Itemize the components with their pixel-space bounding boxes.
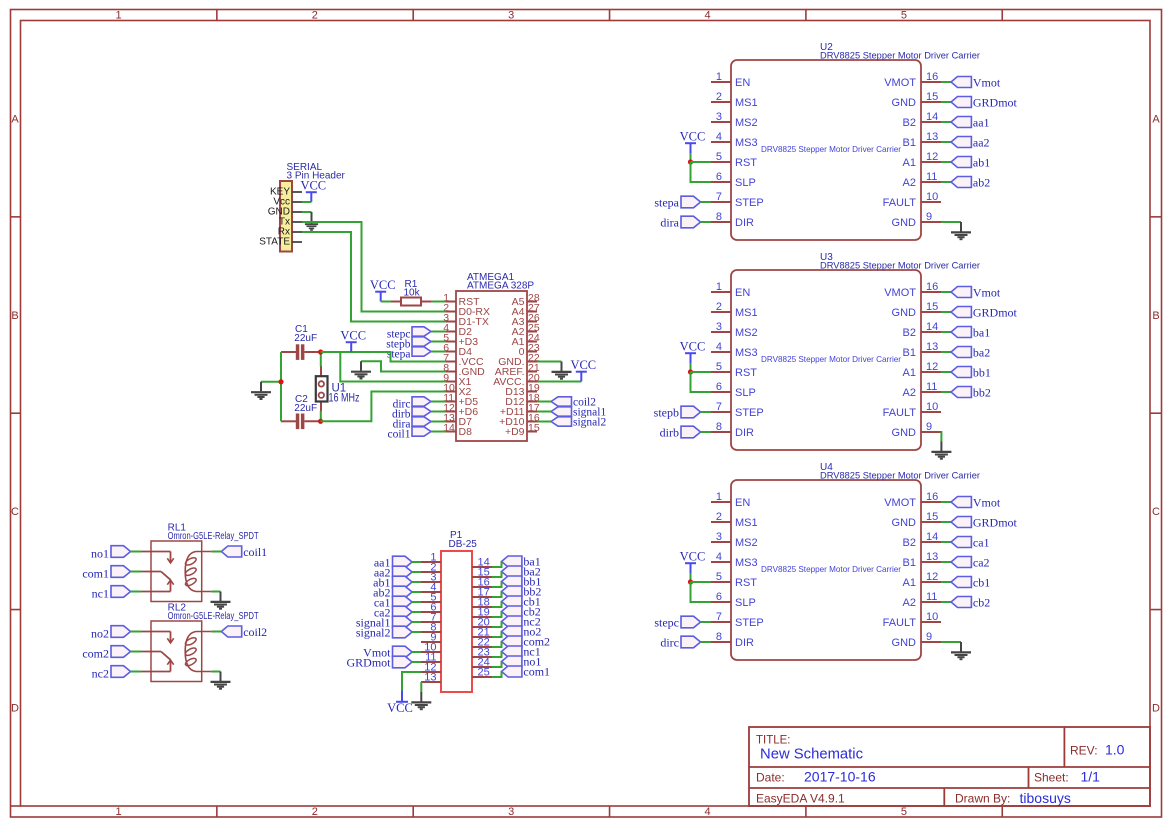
net flag ba1 — [951, 326, 990, 340]
net flag coil2 — [551, 397, 596, 409]
SERIAL pin 5 (Rx) — [278, 227, 302, 238]
svg-text:dira: dira — [660, 216, 679, 230]
svg-text:signal2: signal2 — [356, 626, 391, 640]
wire — [492, 642, 502, 648]
svg-text:4: 4 — [704, 10, 710, 22]
U4 pin 5 (RST) — [711, 571, 757, 589]
svg-text:Vmot: Vmot — [973, 286, 1001, 300]
svg-text:VCC: VCC — [300, 179, 326, 193]
svg-text:RST: RST — [735, 577, 757, 589]
wire — [492, 592, 502, 598]
junction — [318, 349, 323, 354]
svg-text:aa2: aa2 — [973, 136, 990, 150]
capacitor C2 22uF — [281, 414, 321, 430]
net flag no1 — [91, 546, 131, 561]
frame column numbers (top) — [115, 10, 907, 22]
svg-text:GND: GND — [892, 517, 917, 529]
U4 pin 13 (B1) — [903, 551, 941, 569]
P1 pin 6 — [421, 602, 441, 614]
svg-text:DIR: DIR — [735, 427, 754, 439]
wire — [412, 601, 421, 603]
ground — [411, 692, 431, 709]
wire VCC rail to ATMEGA pin 7 — [321, 352, 446, 362]
net flag signal1 — [356, 616, 412, 630]
svg-text:A1: A1 — [903, 577, 916, 589]
svg-text:DB-25: DB-25 — [449, 539, 478, 550]
U2 pin 15 (GND) — [892, 91, 941, 109]
ATMEGA1 pin 22 (GND.) — [498, 352, 540, 368]
wire — [941, 291, 951, 293]
svg-text:+D9: +D9 — [505, 426, 525, 438]
net flag signal1 — [551, 407, 606, 419]
svg-text:1: 1 — [716, 281, 722, 293]
wire Rx to D1-TX — [302, 232, 446, 322]
svg-text:New Schematic: New Schematic — [760, 746, 863, 763]
svg-text:3: 3 — [716, 111, 722, 123]
ATMEGA1 pin 28 (A5) — [512, 292, 540, 308]
svg-text:14: 14 — [926, 531, 938, 543]
wire — [691, 371, 712, 373]
wire — [211, 591, 220, 593]
ground — [552, 362, 572, 379]
svg-text:1: 1 — [716, 491, 722, 503]
ATMEGA1 pin 16 (+D10) — [499, 412, 540, 428]
svg-text:1: 1 — [115, 10, 121, 22]
svg-text:1: 1 — [115, 806, 121, 818]
ground — [211, 672, 231, 689]
svg-text:coil2: coil2 — [243, 625, 267, 639]
ATMEGA1 pin 10 (X2) — [443, 382, 471, 398]
U2 pin 1 (EN) — [711, 71, 750, 89]
wire — [537, 401, 551, 403]
U4 pin 4 (MS3) — [711, 551, 758, 569]
svg-text:13: 13 — [926, 131, 938, 143]
net flag cb1 — [951, 576, 990, 590]
svg-text:cb2: cb2 — [973, 596, 990, 610]
power flag VCC for U4 — [680, 550, 706, 574]
wire — [941, 181, 951, 183]
svg-text:MS2: MS2 — [735, 117, 758, 129]
svg-text:12: 12 — [926, 571, 938, 583]
svg-text:stepb: stepb — [654, 406, 679, 420]
wire — [492, 572, 502, 578]
ATMEGA1 pin 23 (0) — [519, 342, 540, 358]
wire — [701, 411, 711, 413]
svg-text:GRDmot: GRDmot — [973, 516, 1018, 530]
net flag bb1 — [951, 366, 991, 380]
wire — [412, 631, 421, 633]
power flag VCC at R1 — [370, 278, 396, 302]
svg-text:3: 3 — [508, 806, 514, 818]
svg-text:DRV8825 Stepper Motor Driver C: DRV8825 Stepper Motor Driver Carrier — [761, 564, 901, 574]
svg-text:9: 9 — [926, 631, 932, 643]
svg-text:B2: B2 — [903, 117, 916, 129]
svg-text:22uF: 22uF — [294, 333, 317, 344]
wire — [131, 631, 142, 633]
svg-text:12: 12 — [926, 361, 938, 373]
U4 pin 2 (MS1) — [711, 511, 758, 529]
svg-text:EN: EN — [735, 287, 750, 299]
wire — [691, 161, 712, 163]
svg-text:com1: com1 — [523, 664, 550, 678]
U3 pin 10 (FAULT) — [883, 401, 941, 419]
svg-text:16: 16 — [926, 281, 938, 293]
power flag VCC right of ATMEGA — [570, 358, 596, 382]
svg-text:6: 6 — [716, 591, 722, 603]
frame row letters (left) — [11, 114, 19, 715]
svg-text:MS1: MS1 — [735, 97, 758, 109]
svg-text:coil1: coil1 — [243, 545, 267, 559]
ground — [951, 642, 971, 659]
U2 pin 6 (SLP) — [711, 171, 756, 189]
wire — [492, 612, 502, 618]
svg-text:15: 15 — [926, 301, 938, 313]
U4 pin 1 (EN) — [711, 491, 750, 509]
U4 pin 7 (STEP) — [711, 611, 764, 629]
net flag bb2 — [951, 386, 991, 400]
svg-text:6: 6 — [716, 381, 722, 393]
svg-text:EN: EN — [735, 497, 750, 509]
net flag dirc — [393, 397, 431, 411]
resistor R1 — [391, 298, 431, 306]
svg-text:B2: B2 — [903, 327, 916, 339]
ATMEGA1 pin 5 (+D3) — [443, 332, 478, 348]
wire — [701, 641, 711, 643]
U4 pin 12 (A1) — [903, 571, 941, 589]
net flag ba1 — [502, 554, 541, 568]
svg-text:D8: D8 — [459, 426, 473, 438]
wire X1 — [340, 352, 446, 382]
SERIAL pin 2 (Vcc) — [273, 197, 302, 208]
U4 pin 15 (GND) — [892, 511, 941, 529]
net flag Vmot — [951, 286, 1001, 300]
wire — [412, 661, 421, 663]
U3 pin 8 (DIR) — [711, 421, 754, 439]
SERIAL pin 3 (GND) — [268, 207, 302, 218]
ground — [951, 222, 971, 239]
svg-text:A1: A1 — [903, 157, 916, 169]
svg-text:2: 2 — [716, 91, 722, 103]
svg-text:GND: GND — [892, 217, 917, 229]
P1 pin 25 — [472, 667, 492, 679]
wire — [941, 581, 951, 583]
power flag VCC for U2 — [680, 130, 706, 154]
ATMEGA1 pin 25 (A2) — [512, 322, 540, 338]
wire — [131, 571, 142, 573]
net flag cb2 — [951, 596, 990, 610]
wire — [701, 431, 711, 433]
svg-text:A1: A1 — [903, 367, 916, 379]
svg-text:DRV8825 Stepper Motor Driver C: DRV8825 Stepper Motor Driver Carrier — [761, 144, 901, 154]
P1 pin 23 — [472, 647, 492, 659]
power flag VCC below P1 — [387, 691, 413, 716]
ATMEGA1 pin 20 (AVCC.) — [493, 372, 540, 388]
U4 pin 3 (MS2) — [711, 531, 758, 549]
net flag stepc — [387, 327, 431, 341]
svg-text:tibosuys: tibosuys — [1020, 790, 1071, 806]
svg-text:C: C — [1152, 506, 1160, 518]
svg-text:16 MHz: 16 MHz — [329, 392, 360, 404]
svg-text:16: 16 — [926, 71, 938, 83]
svg-text:A2: A2 — [903, 597, 916, 609]
U3 pin 13 (B1) — [903, 341, 941, 359]
P1 pin 9 — [421, 632, 441, 644]
svg-text:7: 7 — [716, 611, 722, 623]
svg-text:MS1: MS1 — [735, 307, 758, 319]
svg-text:5: 5 — [716, 151, 722, 163]
wire — [701, 221, 711, 223]
net flag GRDmot — [951, 306, 1018, 320]
net flag aa2 — [374, 566, 412, 580]
ATMEGA1 pin 9 (X1) — [443, 372, 471, 388]
P1 pin 7 — [421, 612, 441, 624]
svg-text:coil1: coil1 — [388, 429, 411, 441]
svg-text:8: 8 — [716, 631, 722, 643]
P1 pin 21 — [472, 627, 492, 639]
svg-text:10: 10 — [926, 401, 938, 413]
svg-text:22uF: 22uF — [294, 403, 317, 414]
svg-text:2: 2 — [716, 301, 722, 313]
wire crystal top to C1 junction — [320, 352, 322, 367]
connector SERIAL 3 Pin Header — [280, 181, 292, 252]
wire — [431, 431, 446, 433]
net flag dirb — [660, 426, 701, 440]
net flag coil1 — [388, 427, 432, 441]
junction — [278, 379, 283, 384]
SERIAL pin 4 (Tx) — [279, 217, 302, 228]
svg-text:GND: GND — [892, 307, 917, 319]
svg-text:ba1: ba1 — [973, 326, 990, 340]
U2 pin 5 (RST) — [711, 151, 757, 169]
svg-text:STEP: STEP — [735, 617, 764, 629]
net flag coil2 — [221, 625, 267, 639]
wire — [691, 581, 712, 583]
net flag GRDmot — [951, 516, 1018, 530]
svg-text:ab2: ab2 — [973, 176, 990, 190]
net flag ba2 — [951, 346, 990, 360]
U4 pin 11 (A2) — [903, 591, 941, 609]
svg-text:VCC: VCC — [570, 358, 596, 372]
P1 pin 8 — [421, 622, 441, 634]
ground — [305, 212, 318, 230]
junction — [688, 369, 693, 374]
net flag ab2 — [373, 586, 412, 600]
svg-text:VCC: VCC — [680, 340, 706, 354]
wire — [131, 671, 142, 673]
wire — [941, 101, 951, 103]
wire — [941, 641, 961, 643]
svg-text:SLP: SLP — [735, 597, 756, 609]
svg-text:DRV8825 Stepper Motor Driver C: DRV8825 Stepper Motor Driver Carrier — [820, 261, 980, 272]
svg-text:B1: B1 — [903, 557, 916, 569]
net flag bb2 — [502, 584, 542, 598]
svg-text:3: 3 — [716, 531, 722, 543]
net flag stepc — [654, 616, 700, 630]
net flag com2 — [502, 634, 551, 648]
net flag no2 — [502, 624, 542, 638]
svg-text:RST: RST — [735, 157, 757, 169]
wire — [941, 221, 961, 223]
wire — [302, 201, 311, 203]
svg-text:VCC: VCC — [370, 278, 396, 292]
wire — [701, 621, 711, 623]
svg-text:A: A — [1152, 114, 1160, 126]
wire — [537, 421, 551, 423]
ATMEGA1 pin 2 (D0-RX) — [443, 302, 490, 318]
net flag nc2 — [92, 666, 131, 681]
wire — [940, 432, 942, 442]
svg-text:4: 4 — [716, 341, 722, 353]
U3 pin 9 (GND) — [892, 421, 941, 439]
net flag cb2 — [502, 604, 541, 618]
svg-text:15: 15 — [926, 511, 938, 523]
ATMEGA1 pin 13 (D7) — [443, 412, 472, 428]
ground — [351, 361, 371, 378]
wire — [381, 301, 391, 303]
ground — [211, 592, 231, 609]
wire P1 pin 12 to VCC — [402, 672, 421, 691]
U2 pin 7 (STEP) — [711, 191, 764, 209]
net flag Vmot — [951, 496, 1001, 510]
svg-text:no1: no1 — [91, 547, 109, 561]
wire — [941, 561, 951, 563]
wire — [412, 591, 421, 593]
svg-text:2: 2 — [312, 806, 318, 818]
svg-text:11: 11 — [926, 171, 937, 183]
wire — [412, 561, 421, 563]
wire — [431, 341, 446, 343]
svg-text:STEP: STEP — [735, 197, 764, 209]
svg-text:VMOT: VMOT — [884, 77, 916, 89]
svg-text:7: 7 — [716, 401, 722, 413]
net flag dirc — [660, 636, 700, 650]
svg-text:B1: B1 — [903, 137, 916, 149]
svg-text:D: D — [11, 703, 19, 715]
svg-text:DIR: DIR — [735, 217, 754, 229]
relay RL2 Omron-G5LE-Relay_SPDT — [141, 621, 211, 682]
wire — [131, 551, 142, 553]
svg-text:ca1: ca1 — [973, 536, 990, 550]
U4 pin 9 (GND) — [892, 631, 941, 649]
svg-text:A2: A2 — [903, 387, 916, 399]
svg-text:VCC: VCC — [387, 701, 413, 715]
svg-text:com2: com2 — [82, 647, 109, 661]
net flag ab1 — [951, 156, 990, 170]
ATMEGA1 pin 15 (+D9) — [505, 422, 540, 438]
svg-text:FAULT: FAULT — [883, 197, 917, 209]
svg-text:ba2: ba2 — [973, 346, 990, 360]
net flag ab1 — [373, 576, 412, 590]
U4 pin 8 (DIR) — [711, 631, 754, 649]
wire — [431, 411, 446, 413]
svg-text:5: 5 — [716, 361, 722, 373]
power flag VCC for U3 — [680, 340, 706, 364]
wire — [431, 331, 446, 333]
wire Tx to D0-RX — [302, 222, 446, 312]
P1 pin 3 — [421, 572, 441, 584]
ATMEGA1 pin 26 (A3) — [512, 312, 540, 328]
svg-text:25: 25 — [478, 667, 490, 679]
P1 pin 17 — [472, 587, 492, 599]
svg-text:STATE: STATE — [259, 237, 290, 248]
svg-text:ca2: ca2 — [973, 556, 990, 570]
svg-text:Omron-G5LE-Relay_SPDT: Omron-G5LE-Relay_SPDT — [168, 611, 259, 622]
svg-text:4: 4 — [716, 551, 722, 563]
U2 pin 8 (DIR) — [711, 211, 754, 229]
P1 pin 13 — [421, 672, 441, 684]
net flag Vmot — [951, 76, 1001, 90]
wire — [941, 331, 951, 333]
svg-text:EasyEDA V4.9.1: EasyEDA V4.9.1 — [756, 792, 845, 806]
wire — [701, 201, 711, 203]
ATMEGA1 pin 18 (D12) — [505, 392, 540, 408]
svg-text:12: 12 — [926, 151, 938, 163]
wire — [941, 141, 951, 143]
IC U2 DRV8825 Stepper Motor Driver Carrier — [731, 60, 921, 240]
title block — [749, 727, 1150, 806]
P1 pin 12 — [421, 662, 441, 674]
wire — [941, 81, 951, 83]
wire — [537, 411, 551, 413]
wire — [412, 621, 421, 623]
U4 pin 14 (B2) — [903, 531, 941, 549]
net flag aa2 — [951, 136, 990, 150]
U3 pin 11 (A2) — [903, 381, 941, 399]
svg-text:ab1: ab1 — [973, 156, 990, 170]
svg-text:1.0: 1.0 — [1105, 742, 1125, 758]
svg-text:dirc: dirc — [660, 636, 679, 650]
wire — [211, 631, 221, 633]
net flag dirb — [392, 407, 431, 421]
wire crystal bottom to C2 junction — [320, 411, 322, 422]
net flag no1 — [502, 654, 542, 668]
svg-text:B: B — [11, 310, 18, 322]
wire — [492, 562, 502, 568]
wire — [302, 211, 312, 213]
svg-text:RST: RST — [735, 367, 757, 379]
wire — [412, 651, 421, 653]
svg-text:MS2: MS2 — [735, 537, 758, 549]
svg-text:B1: B1 — [903, 347, 916, 359]
SERIAL pin 1 (KEY) — [270, 187, 302, 198]
ATMEGA1 pin 14 (D8) — [443, 422, 472, 438]
ATMEGA1 pin 8 (.GND) — [443, 362, 485, 378]
svg-text:4: 4 — [704, 806, 710, 818]
net flag nc2 — [502, 614, 541, 628]
junction — [318, 419, 323, 424]
svg-text:SLP: SLP — [735, 177, 756, 189]
svg-text:A: A — [11, 114, 19, 126]
P1 pin 2 — [421, 562, 441, 574]
net flag bb1 — [502, 574, 542, 588]
U2 pin 10 (FAULT) — [883, 191, 941, 209]
U3 pin 12 (A1) — [903, 361, 941, 379]
svg-text:9: 9 — [926, 421, 932, 433]
wire — [941, 541, 951, 543]
svg-text:aa1: aa1 — [973, 116, 990, 130]
ground — [931, 442, 951, 459]
svg-text:nc1: nc1 — [92, 587, 109, 601]
svg-text:5: 5 — [716, 571, 722, 583]
wire — [941, 351, 951, 353]
svg-text:VCC: VCC — [340, 329, 366, 343]
net flag ca2 — [951, 556, 990, 570]
wire — [941, 501, 951, 503]
svg-text:Omron-G5LE-Relay_SPDT: Omron-G5LE-Relay_SPDT — [168, 531, 259, 542]
relay RL1 Omron-G5LE-Relay_SPDT — [141, 541, 211, 602]
svg-text:stepc: stepc — [654, 616, 679, 630]
svg-text:5: 5 — [901, 806, 907, 818]
